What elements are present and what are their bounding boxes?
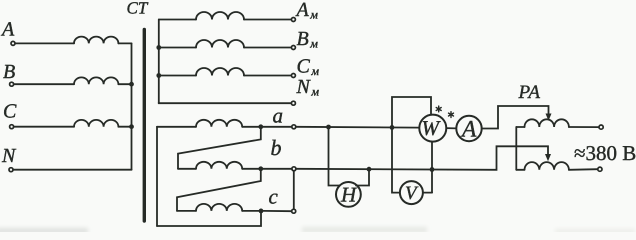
terminal a [273,104,296,129]
terminal B (phase B input) [3,61,15,86]
terminal Cm [291,56,319,79]
output terminal upper [599,125,603,129]
svg-text:Nм: Nм [296,76,320,99]
svg-text:b: b [271,135,282,160]
wire PA upper winding to output [569,126,599,128]
secondary winding c [196,204,242,211]
junction node a [258,124,263,129]
svg-text:N: N [1,145,17,167]
wire Bm winding to terminal [244,47,291,49]
voltmeter V [400,181,423,204]
wire B winding to star bus [118,83,131,85]
wattmeter current-coil loop [392,97,431,127]
junction primary bus / phase C [129,124,134,129]
wire c winding to junction [242,210,261,212]
svg-text:РА: РА [518,82,541,103]
terminal Bm [291,28,318,51]
wire Cm row [159,75,196,77]
wire W to A [446,127,456,129]
svg-text:a: a [273,104,284,128]
wire A to autotransformer wiper [482,106,549,129]
wire a junction to terminal [263,126,291,128]
wire c junction to terminal [263,210,291,212]
wattmeter polarity asterisk 2 [450,112,452,118]
wire PA lower winding to output [569,168,598,171]
svg-text:Aм: Aм [295,0,319,22]
wire b row left [178,168,196,170]
op wattmeter W [419,115,446,142]
secondary winding b [196,162,242,169]
svg-text:B: B [3,61,15,83]
wire a row to wattmeter [296,126,419,129]
svg-text:СТ: СТ [127,0,149,18]
wire N terminal to star bus [13,169,131,171]
svg-text:A: A [460,117,477,143]
wire Nm row (no winding) [159,102,291,104]
primary winding phase C [74,120,118,127]
PA lower winding [516,169,524,171]
zigzag bottom return wire [157,213,261,226]
svg-text:C: C [3,101,17,123]
zigzag link b to c [177,171,261,211]
frequency meter branch right (to node b) [356,169,369,185]
wire A winding to star bus [118,42,131,44]
svg-text:A: A [0,19,15,41]
primary winding phase B [74,77,118,84]
junction m-bus / Cm [156,73,161,78]
junction node c [259,209,264,214]
PA windings common left link [515,127,517,170]
PA upper winding [516,126,524,128]
wire Bm row [159,47,196,49]
junction b / W voltage coil / V [430,167,435,172]
wattmeter voltage-coil wire down to node b [431,142,433,193]
wire a winding to junction [242,126,261,128]
jumper terminal b to terminal c [293,171,295,209]
junction node b [258,166,263,171]
svg-text:W: W [422,116,442,140]
junction b / H branch [367,167,372,172]
wire Am row [159,19,196,21]
voltmeter branch left (node a down to V) [392,127,400,192]
zigzag link a to b [178,129,261,169]
wire c row left [177,210,196,212]
secondary winding Cm [196,68,244,75]
wire C winding to star bus [118,126,131,128]
wattmeter polarity asterisk 1 [438,106,440,112]
terminal c [269,184,296,213]
wire A terminal to winding [15,42,74,44]
output terminal lower [598,167,602,171]
secondary winding a [196,120,242,127]
svg-text:Н: Н [340,183,358,207]
svg-text:c: c [269,184,279,208]
junction a / frequency-meter branch [326,125,331,130]
secondary star bus (m group) [158,20,160,104]
terminal N (neutral input) [1,145,17,172]
ammeter A [456,116,481,143]
secondary winding Am [196,12,244,19]
svg-text:≈380 В: ≈380 В [574,141,636,165]
junction a / wattmeter current loop [390,125,395,130]
junction primary bus / phase B [129,82,134,87]
wire Am winding to terminal [244,19,291,21]
wire b junction to terminal [263,168,291,170]
m-bus elbow to Nm [158,101,160,104]
svg-text:Cм: Cм [297,56,320,79]
terminal A (phase A input) [0,19,15,46]
meter H [336,182,361,207]
wiper arrow onto lower PA winding [545,154,551,161]
frequency meter branch left (from node a) [329,127,342,186]
secondary winding Bm [196,40,244,48]
wire B terminal to winding [14,83,74,85]
svg-text:Bм: Bм [297,28,319,51]
wire C terminal to winding [14,126,74,128]
wire b row to PA [296,146,548,170]
primary winding phase A [74,37,118,44]
terminal Am [291,0,318,22]
transformer core [143,30,146,222]
wire Cm winding to terminal [244,75,291,77]
terminal b [271,135,296,171]
wiper arrow onto upper PA winding [546,114,552,121]
terminal Nm [291,76,319,105]
wire b winding to junction [242,168,261,170]
wire a row left [157,126,196,128]
zigzag group left bus [156,127,158,226]
primary star-point bus [131,43,133,169]
junction m-bus / Bm [156,45,161,50]
voltmeter right stub [423,192,432,194]
terminal C (phase C input) [3,101,17,129]
